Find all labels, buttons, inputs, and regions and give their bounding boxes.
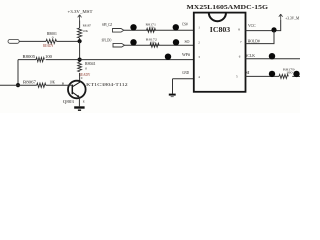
svg-text:READY: READY	[43, 44, 54, 48]
svg-text:GND: GND	[182, 71, 189, 75]
node junction SO row 2	[173, 39, 179, 45]
svg-text:Q803: Q803	[63, 99, 74, 104]
off-page connector (oval) READY	[8, 40, 19, 44]
svg-text:+3.3V_MST: +3.3V_MST	[68, 9, 93, 14]
resistor R8041 0	[78, 62, 96, 71]
resistor R8005 100	[23, 55, 53, 62]
off-page connector SPI_DO	[102, 38, 125, 47]
svg-text:IC803: IC803	[210, 26, 231, 34]
wire SCLK row	[246, 58, 301, 60]
wire R8001 to junction	[57, 40, 80, 42]
svg-text:R8187: R8187	[83, 23, 92, 27]
node junction base row	[16, 83, 20, 87]
svg-text:+3.3V_M: +3.3V_M	[285, 17, 300, 21]
node junction CS# row 1	[130, 24, 136, 30]
wire oval to R8001	[19, 40, 46, 42]
wire base row from left edge	[0, 84, 37, 86]
transistor Q803 KT1C3804-T112	[63, 81, 128, 105]
svg-text:HOLD#: HOLD#	[248, 40, 260, 44]
svg-text:100: 100	[45, 55, 52, 59]
node junction SO row 1	[130, 39, 136, 45]
svg-text:0: 0	[52, 36, 54, 40]
power +3.3V right	[279, 14, 300, 21]
resistor R8179 100	[279, 67, 295, 78]
svg-text:MX25L1605AMDC-15G: MX25L1605AMDC-15G	[187, 4, 269, 11]
svg-text:VCC: VCC	[248, 24, 256, 28]
off-page connector SPI_CZ	[102, 23, 124, 32]
node junction VCC row	[271, 27, 276, 32]
svg-text:WP#: WP#	[182, 53, 190, 57]
node junction CS# row 2	[173, 24, 179, 30]
svg-text:100: 100	[149, 26, 154, 30]
svg-text:100: 100	[150, 41, 155, 45]
wire R8179 to edge	[292, 75, 300, 77]
svg-text:10K: 10K	[83, 29, 89, 33]
wire vertical left column	[17, 60, 19, 86]
svg-text:SO: SO	[185, 40, 190, 44]
svg-text:R8067: R8067	[23, 81, 36, 85]
wire SPI_CZ to IC pin1	[124, 29, 194, 31]
svg-text:CS#: CS#	[182, 23, 188, 27]
resistor R8187 10K	[78, 23, 92, 38]
svg-text:SPI_CZ: SPI_CZ	[102, 23, 113, 27]
wire HOLD# to VCC	[246, 31, 275, 44]
resistor R8171 100	[146, 23, 157, 33]
wire R8187 down to READY row	[79, 38, 81, 41]
svg-text:SCLK: SCLK	[245, 54, 255, 58]
resistor R8172 100	[146, 38, 159, 48]
wire power to R8187	[79, 21, 81, 29]
node junction READY column	[78, 39, 82, 43]
ground (pin 4)	[169, 94, 176, 98]
svg-text:R8005: R8005	[23, 55, 36, 59]
wire VCC row	[246, 20, 281, 31]
node junction WP# row column A	[78, 58, 82, 62]
node junction SI row 2	[293, 71, 299, 77]
IC IC803 MX25L1605AMDC-15G	[187, 4, 269, 92]
svg-text:E: E	[83, 99, 85, 103]
resistor R8067 10K	[23, 81, 55, 88]
svg-text:KT1C3804-T112: KT1C3804-T112	[86, 82, 128, 87]
power +3.3V_MST	[68, 9, 93, 21]
svg-text:SPI_DO: SPI_DO	[102, 38, 112, 42]
wire junction down to WP# row	[79, 41, 81, 62]
svg-text:0: 0	[85, 66, 87, 70]
wire R8041 to collector	[79, 73, 81, 83]
wire GND pin4	[173, 79, 194, 94]
wire SPI_DO to IC pin2	[125, 44, 194, 46]
node junction SCLK row	[269, 53, 275, 59]
svg-text:100: 100	[286, 71, 293, 75]
node junction WP# row near IC	[165, 54, 171, 60]
svg-text:10K: 10K	[50, 81, 56, 85]
resistor R8001 0	[46, 32, 57, 44]
wire R8067 to base	[46, 84, 73, 86]
wire WP# row left corner	[18, 59, 36, 61]
node junction SI row 1	[269, 71, 275, 77]
wire SI row	[246, 75, 280, 77]
wire R8005 to IC pin3	[46, 59, 194, 61]
ground (emitter)	[74, 106, 84, 111]
wire emitter down	[78, 98, 80, 107]
